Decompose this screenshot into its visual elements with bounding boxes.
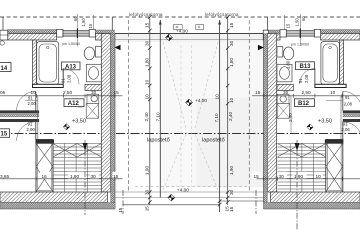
insulation strip top-right — [321, 30, 360, 34]
svg-text:91: 91 — [28, 96, 33, 101]
room label B12 — [295, 99, 315, 107]
svg-text:lefolyócsatorna: lefolyócsatorna — [205, 12, 239, 17]
svg-text:10: 10 — [215, 94, 220, 100]
svg-text:14: 14 — [1, 66, 8, 72]
svg-text:15: 15 — [114, 90, 120, 95]
toilet B — [277, 47, 283, 58]
east wall unit A — [101, 34, 110, 193]
stair break X pattern B — [278, 144, 326, 158]
svg-text:2,00: 2,00 — [27, 127, 36, 132]
svg-text:2,08: 2,08 — [67, 74, 72, 83]
window B: sill blocks — [280, 29, 286, 37]
section arrow B — [295, 143, 300, 151]
wall edge line A12 west — [37, 96, 39, 141]
roof boundary dashed line top — [0, 16, 360, 18]
kitchen sink B — [277, 94, 289, 103]
svg-text:2,08: 2,08 — [304, 74, 309, 83]
svg-text:15: 15 — [224, 206, 229, 212]
svg-text:15: 15 — [1, 132, 8, 138]
svg-text:30: 30 — [144, 189, 149, 195]
svg-text:2,50: 2,50 — [302, 90, 312, 95]
svg-text:7,10: 7,10 — [156, 112, 161, 122]
wall below bathroom A — [33, 84, 64, 87]
svg-text:+4,00: +4,00 — [176, 29, 188, 34]
room label A12 — [64, 99, 84, 107]
south insulation B — [264, 203, 360, 209]
dim labels rotated along x227.7 — [214, 22, 234, 212]
dim line horizontal y95.8 left — [0, 95, 123, 97]
roof slope dashed diagonals — [163, 42, 218, 190]
downpipe circle — [0, 41, 4, 45]
bathtub A — [37, 42, 59, 85]
corner wall piece B — [267, 34, 280, 41]
west wall outer face B — [263, 34, 265, 210]
interior wall left of tub — [33, 40, 37, 84]
south wall B — [270, 192, 360, 203]
svg-text:60: 60 — [73, 16, 78, 21]
svg-text:2,40: 2,40 — [288, 113, 293, 122]
toilet A — [96, 47, 102, 58]
stairs B: landing bar — [325, 140, 344, 144]
bottom middle roof edges — [115, 191, 267, 193]
svg-text:15: 15 — [255, 90, 261, 95]
svg-text:10: 10 — [144, 94, 149, 100]
svg-text:2,08: 2,08 — [344, 101, 353, 106]
ticks on middle dim lines — [148, 15, 230, 206]
corridor door 2 B — [342, 122, 344, 141]
svg-text:91: 91 — [28, 122, 33, 127]
svg-text:B12: B12 — [298, 101, 310, 107]
room label 15 — [0, 129, 10, 138]
svg-text:1,90: 1,90 — [294, 174, 304, 179]
east wall outer face — [114, 34, 116, 210]
stair break X pattern A — [53, 144, 101, 158]
bathtub B — [321, 42, 340, 85]
flat roof tint middle — [161, 42, 267, 187]
vertical roof edge left of unit B — [267, 17, 269, 33]
svg-text:B13: B13 — [300, 64, 312, 70]
wall edge line B12 east — [340, 96, 342, 141]
svg-text:3,65: 3,65 — [0, 174, 10, 179]
svg-text:15: 15 — [88, 23, 93, 28]
insulation corner top-right — [96, 30, 115, 34]
svg-text:30: 30 — [91, 90, 97, 95]
south insulation A — [0, 203, 115, 209]
svg-text:+3,50: +3,50 — [72, 119, 86, 125]
svg-text:1,50: 1,50 — [295, 18, 300, 27]
door A13 leaf and arc — [62, 69, 64, 85]
svg-text:30: 30 — [229, 40, 234, 46]
dim line y178.5 right — [253, 172, 360, 181]
corridor door 1 — [35, 92, 37, 111]
svg-text:15: 15 — [113, 174, 119, 179]
svg-text:1,90: 1,90 — [229, 165, 234, 175]
vertical roof edge right of unit A — [111, 17, 113, 31]
window center tick — [76, 14, 78, 46]
svg-text:1,90: 1,90 — [70, 174, 80, 179]
svg-text:91: 91 — [298, 78, 303, 83]
svg-text:2,00: 2,00 — [28, 101, 37, 106]
svg-text:15: 15 — [118, 207, 123, 213]
south wall A — [0, 192, 108, 203]
room label 14 — [0, 63, 11, 72]
svg-text:A13: A13 — [65, 64, 77, 70]
kitchen sink A — [87, 94, 99, 103]
door B13 leaf and arc — [314, 69, 316, 85]
svg-text:10: 10 — [330, 90, 336, 95]
svg-text:10: 10 — [144, 79, 149, 85]
svg-text:lapostető: lapostető — [147, 138, 170, 144]
corridor wall band — [0, 111, 39, 114]
roof edge solid x160.3 with arrow — [159, 20, 161, 198]
svg-text:10: 10 — [316, 174, 322, 179]
svg-text:15: 15 — [286, 23, 291, 28]
top wall right — [321, 34, 360, 41]
corridor door 1 B — [342, 92, 344, 111]
washbasin B — [277, 64, 292, 82]
svg-text:30: 30 — [91, 174, 97, 179]
svg-text:+3,50: +3,50 — [318, 119, 332, 125]
svg-text:A12: A12 — [68, 101, 80, 107]
section dash vertical x297 — [296, 140, 298, 230]
top wall left — [8, 34, 57, 41]
wall below bathroom B — [315, 84, 346, 87]
vertical roof edge left of unit A — [2, 17, 4, 30]
dim line horizontal y95.8 right — [252, 95, 360, 97]
window A frame — [63, 31, 89, 36]
dashed roof line y186.5 — [135, 186, 247, 188]
section arrow A — [83, 143, 88, 151]
dim line y178.5 left — [0, 172, 123, 181]
room label A13 — [62, 62, 81, 70]
svg-text:pm 1,50/60: pm 1,50/60 — [291, 43, 309, 47]
center dashed pair — [180, 45, 182, 187]
dim line vertical left x149.8 — [149, 17, 151, 205]
dim line vertical right x227.7 — [227, 17, 229, 205]
roof drain box right — [196, 25, 204, 30]
svg-text:91: 91 — [343, 122, 348, 127]
roof edge solid x219.6 with arrow — [219, 20, 221, 212]
drain arrow triangle B — [258, 45, 264, 50]
svg-text:15: 15 — [229, 206, 234, 212]
dim labels rotated along x149.8 — [144, 22, 161, 211]
svg-text:30: 30 — [283, 90, 289, 95]
window A top: sill blocks — [57, 29, 63, 37]
svg-text:30: 30 — [144, 40, 149, 46]
svg-text:91: 91 — [345, 95, 350, 100]
svg-text:1,80: 1,80 — [286, 60, 291, 69]
pier wall right of door A — [85, 84, 101, 90]
wall end cap left — [0, 30, 8, 40]
svg-text:16: 16 — [42, 174, 48, 179]
svg-text:30: 30 — [279, 174, 285, 179]
svg-text:+4,00: +4,00 — [195, 98, 207, 103]
washbasin A — [86, 64, 101, 82]
section line horizontal — [0, 133, 360, 135]
pier wall left of door B — [277, 84, 293, 90]
svg-text:91: 91 — [61, 78, 66, 83]
dash-dot line x123 bottom (unit A eave) — [122, 190, 124, 214]
svg-text:2,40: 2,40 — [144, 112, 149, 122]
dashed roof line x249.3 — [248, 20, 250, 192]
dashed roof line x128.5 — [128, 20, 130, 192]
svg-text:+4,00: +4,00 — [177, 188, 189, 193]
west wall insulation B — [264, 34, 268, 203]
corridor door 2 — [35, 122, 37, 141]
room label B13 — [296, 62, 315, 70]
svg-text:30: 30 — [229, 189, 234, 195]
section dash vertical x85 — [84, 140, 86, 215]
hob X-square B — [277, 104, 289, 119]
stairs B: X box — [326, 140, 343, 193]
dash-dot line x256 bottom (unit B eave) — [255, 190, 257, 214]
window B center tick — [299, 14, 301, 46]
roof drain box left — [174, 25, 183, 30]
svg-text:10: 10 — [229, 97, 234, 103]
svg-text:pm 1,50/60: pm 1,50/60 — [62, 42, 80, 46]
west wall unit B — [267, 34, 276, 193]
svg-text:15: 15 — [144, 22, 149, 28]
svg-text:7,10: 7,10 — [214, 113, 219, 123]
svg-text:60: 60 — [301, 16, 306, 21]
west wall end cap B — [263, 30, 268, 40]
insulation strip top-left — [8, 30, 57, 34]
svg-text:1,80: 1,80 — [229, 57, 234, 67]
svg-text:1,50: 1,50 — [81, 18, 86, 27]
svg-text:2,50: 2,50 — [63, 90, 73, 95]
stairs A: X box — [36, 140, 53, 193]
east wall insulation — [111, 34, 115, 203]
bottom middle dim line — [220, 200, 267, 202]
svg-text:1,90: 1,90 — [144, 165, 149, 175]
svg-text:10: 10 — [31, 90, 37, 95]
svg-text:lefolyócsatorna: lefolyócsatorna — [129, 12, 163, 17]
canopy edge band top middle — [115, 34, 267, 42]
hob X-square A — [86, 104, 98, 119]
interior wall right of tub B — [340, 40, 344, 84]
svg-text:05: 05 — [0, 90, 6, 95]
svg-text:2,06: 2,06 — [342, 127, 351, 132]
top wall right piece — [96, 34, 111, 41]
svg-text:15: 15 — [229, 22, 234, 28]
stairs A: landing bar — [36, 140, 55, 144]
drain arrow triangle A — [115, 45, 121, 50]
svg-text:15: 15 — [144, 206, 149, 212]
stairs A: treads — [53, 144, 101, 193]
window B frame — [286, 31, 314, 36]
stairs B: treads — [278, 144, 326, 193]
svg-text:15: 15 — [254, 174, 260, 179]
corridor wall band B — [343, 111, 360, 114]
insulation corner top-left B — [264, 30, 283, 34]
svg-text:2,40: 2,40 — [228, 111, 233, 121]
svg-text:lapostető: lapostető — [202, 138, 225, 144]
svg-text:1,80: 1,80 — [144, 57, 149, 67]
